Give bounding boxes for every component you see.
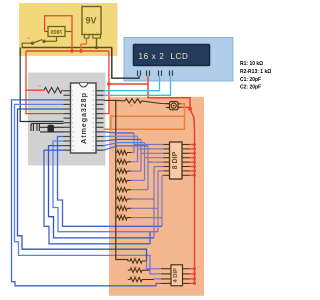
wire: switch to 7805 pin <box>44 40 57 42</box>
svg-text:7805: 7805 <box>50 30 62 36</box>
op-amp style IC body: microcontroller U1 ATmega328p <box>71 83 97 153</box>
junction dots 4DIP <box>193 267 196 285</box>
wire: ground left rail to chip GND pin 8 <box>20 48 63 122</box>
wire: LCD RS (cyan) to chip <box>104 76 160 91</box>
wire: battery negative to ground bus <box>96 38 98 47</box>
wire: R12 to 4DIP pin2 <box>150 270 161 274</box>
svg-text:Atmega328p: Atmega328p <box>79 92 88 144</box>
U1 pins right 15-28 <box>96 91 104 151</box>
wire: 7805 input loop (red) <box>45 16 72 51</box>
wire: switch to ground bus <box>22 43 32 47</box>
wire: chip right pin to 8DIP net2 <box>104 135 138 137</box>
svg-text:R1: R1 <box>38 84 42 88</box>
svg-text:C2: 20pF: C2: 20pF <box>240 85 261 91</box>
wire: chip pin 13 blue loop to 8DIP net6 <box>49 146 155 238</box>
wire: chip pin 12 blue loop to 8DIP net7 <box>53 141 158 232</box>
voltage regulator 7805 <box>48 27 65 37</box>
wire: red drop into switch region <box>148 84 190 109</box>
resistor R7 <box>116 188 131 192</box>
junction dots 8DIP <box>193 143 196 177</box>
S1 pins left <box>164 145 170 176</box>
capacitor C1 <box>31 124 33 131</box>
S2 pins right <box>183 269 190 284</box>
wire: chip pin 3 blue loop to 4DIP <box>12 100 162 286</box>
wire: chip pin 4 blue loop <box>15 104 151 270</box>
wire: capacitor ground link <box>32 124 64 126</box>
svg-text:sw: sw <box>27 37 30 40</box>
wire: net4 vertical and pin link <box>131 143 164 181</box>
wire: chip pin 26 to R2 <box>104 99 118 101</box>
wire: R13 to 4DIP pin3 <box>154 278 161 281</box>
svg-text:R2-R13: 1 kΩ: R2-R13: 1 kΩ <box>240 69 271 75</box>
svg-text:C1: 20pF: C1: 20pF <box>240 77 261 83</box>
LCD pins <box>138 71 173 76</box>
7805 pins <box>45 32 72 42</box>
wire: resistor common bus <box>116 101 128 261</box>
switch SW1 <box>31 40 45 45</box>
breadboard gray region background <box>28 73 106 166</box>
resistor R13 <box>128 277 154 281</box>
svg-text:16 x 2 LCD: 16 x 2 LCD <box>139 52 189 61</box>
wire: net6 vertical <box>131 167 164 238</box>
resistor R6 <box>116 178 131 182</box>
S1 pins right <box>182 145 190 176</box>
LCD module 16x2 <box>124 38 233 82</box>
wire: red right rail to chip AVCC <box>104 51 109 114</box>
resistor R9 <box>116 206 131 210</box>
wire: net5 vertical and pin link <box>131 146 164 190</box>
switch bank orange region background <box>109 97 204 296</box>
wire: chip pin 11 blue loop to 8DIP net8 <box>58 137 163 227</box>
capacitor C2 <box>37 124 39 131</box>
wire: LCD +5V (red) with junction <box>109 76 148 84</box>
buzzer pins <box>166 104 181 108</box>
wire: chip pin 5 blue loop <box>18 109 147 261</box>
wire: chip right pin to 8DIP net3 <box>104 139 142 141</box>
wire: orange +V loop <box>104 104 185 129</box>
battery BT1 9V <box>82 7 101 39</box>
wire: LCD EN (cyan) to chip <box>104 76 171 96</box>
wire: net7 vertical <box>131 171 164 232</box>
wire: chip pin 14 blue loop to net5 <box>44 150 150 244</box>
resistor R5 <box>116 169 131 173</box>
svg-text:8 DIP: 8 DIP <box>172 151 179 169</box>
wire: XTAL1 pin 9 <box>40 126 64 128</box>
wire: red to R1 and chip reset pin 1 <box>26 89 64 92</box>
U1 pin numbers <box>72 91 95 153</box>
DIP switch S1 (8 DIP) <box>170 142 183 179</box>
value labels annotation <box>240 61 271 91</box>
wire: 4DIP right pins to red bus <box>190 269 195 284</box>
wire: R11 to 4DIP pin1 <box>147 261 162 269</box>
wire: buzzer to red bus <box>181 106 190 108</box>
wire: XTAL2 pin 10 <box>40 131 64 133</box>
svg-text:R1: 10 kΩ: R1: 10 kΩ <box>240 61 263 67</box>
wire: net3 vertical and pin link <box>131 139 164 171</box>
svg-text:9V: 9V <box>86 16 97 26</box>
wire: 8DIP right pins to red bus <box>190 145 195 176</box>
resistor R1 <box>44 87 62 93</box>
wire: ground bus <box>22 47 112 49</box>
DIP switch S2 (4 DIP) <box>171 265 183 286</box>
wire: red bus vertical <box>190 109 195 284</box>
S2 pins left <box>161 269 171 284</box>
resistor R12 <box>128 268 150 272</box>
svg-text:4 DIP: 4 DIP <box>173 268 179 283</box>
svg-text:.: . <box>85 29 86 34</box>
buzzer LS1 <box>170 102 179 110</box>
wire: chip right pin to 8DIP net4 <box>104 143 145 146</box>
wire: chip right pin to 8DIP net1 <box>104 132 135 133</box>
U1 pins left 1-14 <box>64 91 71 151</box>
wire: LCD ground (black) <box>112 48 139 79</box>
crystal Y1 <box>48 125 55 133</box>
wire: battery positive (orange) to +5V bus <box>81 38 87 51</box>
wire: chip right pin to 8DIP net5 <box>104 146 149 150</box>
resistor R11 <box>128 259 147 263</box>
wire: net1 vertical and pin link <box>131 133 164 153</box>
wire: +5V red bus <box>26 50 109 52</box>
resistor R4 <box>116 160 131 164</box>
resistor R10 <box>116 215 131 219</box>
resistor R3 <box>116 150 131 154</box>
resistor R2 <box>125 99 142 103</box>
resistor R8 <box>116 197 131 201</box>
wire: red left rail to chip VCC <box>26 51 64 114</box>
wire: net2 vertical and pin link <box>131 136 164 162</box>
power supply region background <box>19 3 118 56</box>
wire: net8 vertical <box>131 175 164 226</box>
